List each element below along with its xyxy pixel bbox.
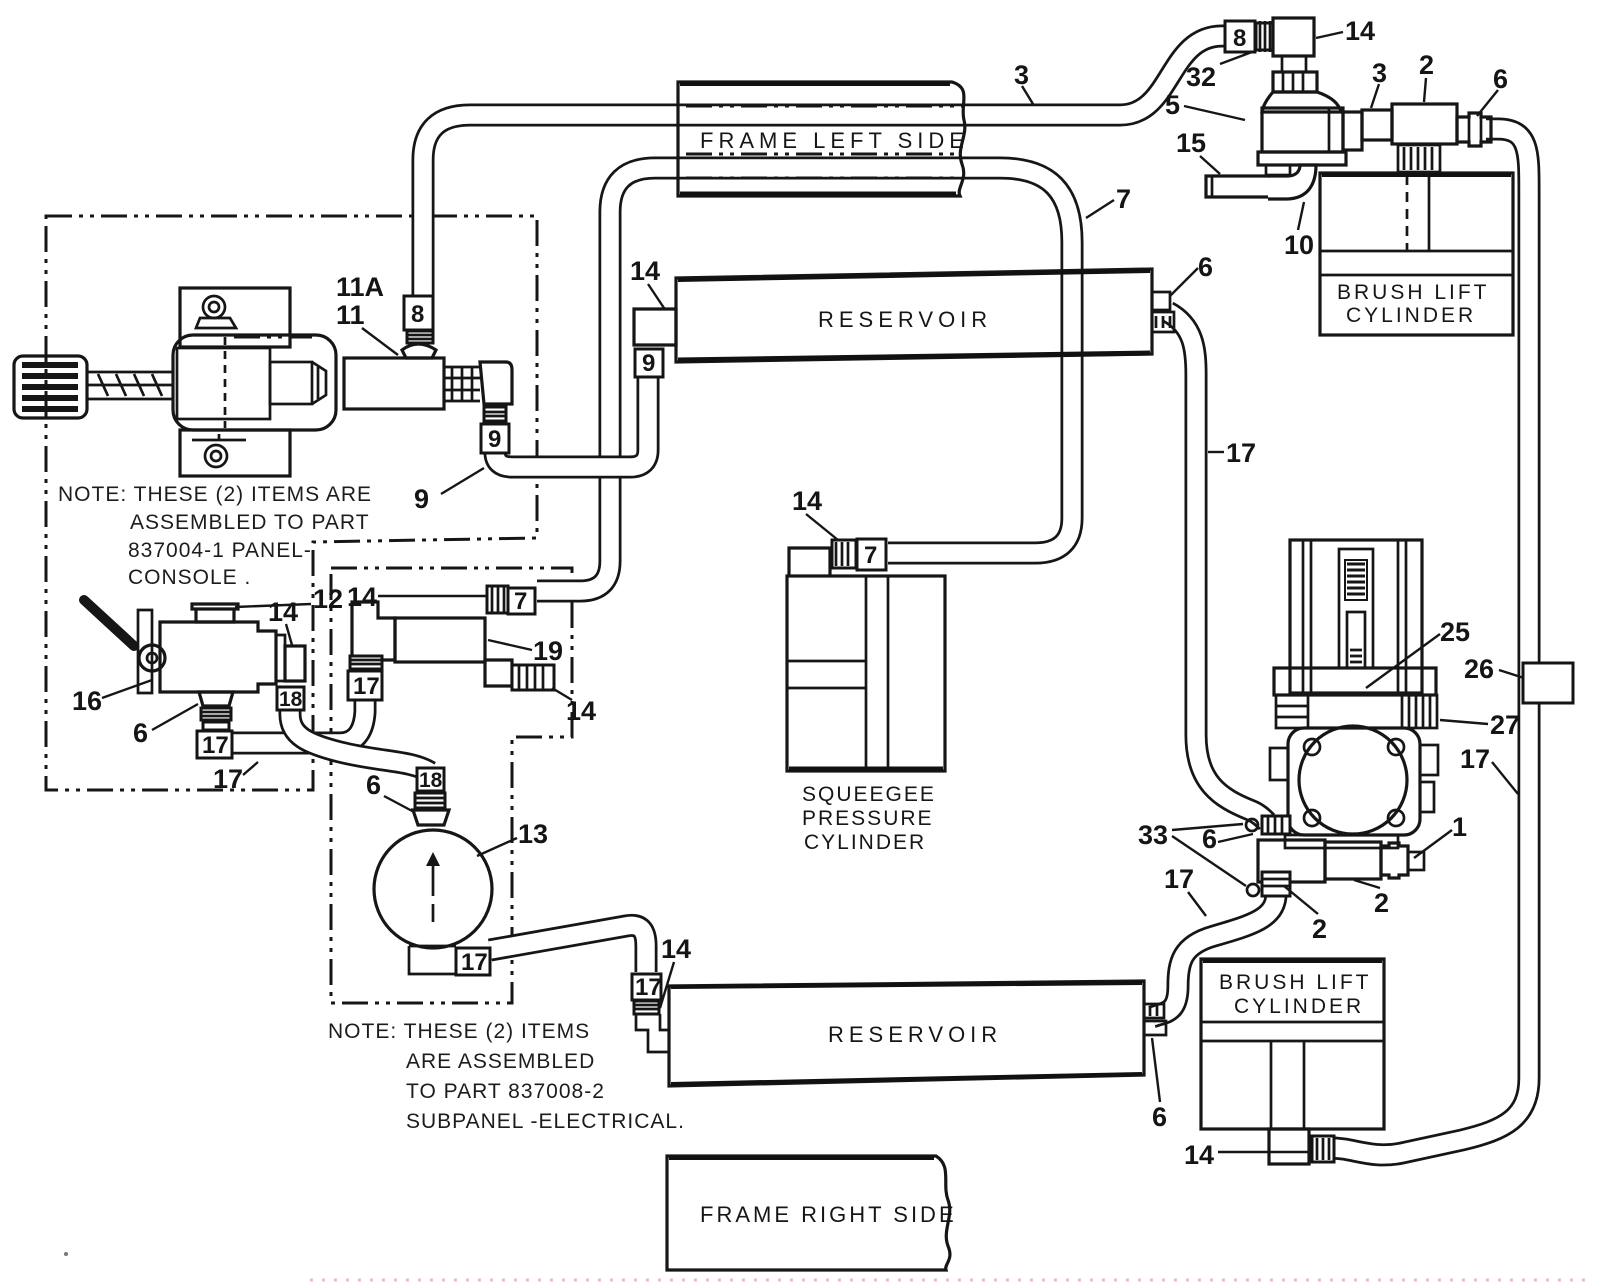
svg-text:6: 6	[1198, 252, 1213, 282]
leader 2	[1424, 78, 1426, 102]
hex fitting 6 top right	[1457, 113, 1491, 146]
leader 19	[488, 640, 532, 650]
fitting 17 box at lower reservoir left	[632, 974, 662, 1001]
hidden dashed line above valve body	[234, 336, 312, 339]
svg-text:14: 14	[347, 582, 377, 612]
left hex port on flange	[1276, 695, 1308, 728]
valve block 11	[344, 358, 444, 409]
svg-text:SQUEEGEE: SQUEEGEE	[802, 783, 936, 806]
threaded port into top cylinder	[1398, 145, 1440, 172]
leader 25	[1366, 634, 1440, 688]
svg-text:14: 14	[268, 597, 298, 627]
svg-text:12: 12	[313, 584, 343, 614]
svg-text:14: 14	[661, 934, 691, 964]
gauge 13	[374, 830, 492, 948]
hose 17 console (valve 12 fitting 17 to solenoid fitting 17)	[232, 700, 365, 743]
ferrule below elbow	[484, 407, 506, 421]
svg-text:14: 14	[1345, 16, 1375, 46]
fitting 8 box top right	[1225, 21, 1255, 52]
svg-text:17: 17	[461, 949, 488, 976]
knob with grip ridges	[14, 356, 87, 418]
leader 9	[441, 468, 484, 494]
svg-text:8: 8	[1233, 25, 1246, 52]
leader 10	[1298, 202, 1304, 230]
reservoir (top)	[676, 269, 1152, 362]
leader 17	[1208, 451, 1224, 453]
svg-text:ARE ASSEMBLED: ARE ASSEMBLED	[406, 1050, 595, 1073]
right port 27 hatched	[1402, 695, 1437, 728]
svg-text:RESERVOIR: RESERVOIR	[818, 307, 992, 332]
nipple 14 left of fitting 7	[487, 586, 508, 613]
motor 5 bell	[1262, 92, 1341, 112]
svg-text:837004-1 PANEL-: 837004-1 PANEL-	[128, 539, 312, 562]
cylinder 3 right of motor	[1343, 110, 1392, 150]
ferrule below solenoid elbow	[350, 656, 382, 669]
svg-text:7: 7	[514, 588, 527, 615]
leader 6	[384, 796, 414, 812]
elbow 10	[1268, 165, 1316, 199]
threaded nipple right of block 11	[444, 367, 480, 401]
svg-text:2: 2	[1312, 914, 1327, 944]
svg-text:3: 3	[1014, 60, 1029, 90]
pump lower base plate	[1285, 835, 1398, 848]
svg-text:7: 7	[1116, 184, 1131, 214]
fitting 7 box at squeegee	[857, 539, 886, 570]
leader 12	[235, 604, 311, 607]
reservoir (bottom)	[669, 981, 1144, 1086]
svg-text:17: 17	[1164, 864, 1194, 894]
threaded collar of motor 5	[1273, 72, 1317, 92]
solenoid valve 19 body	[395, 618, 485, 662]
svg-text:11A: 11A	[336, 272, 384, 302]
leader 1	[1414, 830, 1452, 858]
leaders 33	[1172, 824, 1246, 886]
fitting at lower reservoir right end	[1144, 1004, 1166, 1035]
leader 6	[152, 704, 198, 730]
svg-text:17: 17	[213, 764, 243, 794]
gauge bottom bracket	[409, 946, 456, 974]
bolt 32 hatching	[1256, 21, 1273, 52]
threaded nipple 14 right of solenoid	[512, 665, 554, 690]
svg-text:PRESSURE: PRESSURE	[802, 807, 934, 830]
svg-text:NOTE: THESE (2) ITEMS ARE: NOTE: THESE (2) ITEMS ARE	[58, 483, 372, 506]
lever handle 16	[84, 600, 165, 693]
leader 17	[1492, 762, 1518, 794]
leader 14 to nipple	[378, 595, 486, 597]
ferrule below fitting 8	[407, 331, 433, 343]
fitting 17 box below valve 12	[197, 731, 232, 759]
leader 14	[552, 688, 572, 700]
lower mounting plate	[180, 430, 290, 476]
svg-text:CONSOLE .: CONSOLE .	[128, 566, 251, 589]
squeegee pressure cylinder	[787, 548, 945, 854]
leader 16	[102, 680, 152, 698]
hose 7 (solenoid fitting 7 up over frame and down to squeegee fitting 7)	[537, 168, 1072, 591]
svg-text:RESERVOIR: RESERVOIR	[828, 1022, 1002, 1047]
fitting 8 box above valve block	[404, 296, 433, 330]
leader 14	[1218, 1151, 1308, 1153]
note text subpanel electrical	[328, 1020, 685, 1133]
svg-text:FRAME LEFT SIDE: FRAME LEFT SIDE	[700, 128, 969, 153]
svg-text:14: 14	[1184, 1140, 1214, 1170]
fitting 14 hatched bolt at cylinder foot	[1312, 1136, 1334, 1162]
piston foot bracket below cylinder	[1269, 1129, 1309, 1164]
valve 11A body outline	[173, 335, 336, 430]
svg-text:5: 5	[1165, 90, 1180, 120]
fitting 14 on valve 12 right	[285, 646, 305, 681]
leader 14	[806, 514, 838, 540]
svg-text:18: 18	[279, 688, 303, 711]
svg-text:2: 2	[1419, 50, 1434, 80]
leader 17	[1188, 892, 1206, 916]
svg-text:10: 10	[1284, 230, 1314, 260]
hose 2 (pump elbow down to lower reservoir right fitting)	[1152, 894, 1276, 1017]
svg-text:7: 7	[864, 542, 877, 569]
fitting 17 box below gauge	[456, 948, 490, 976]
dashed panel-console assembly box	[46, 216, 537, 790]
svg-text:17: 17	[353, 673, 380, 700]
hex ball below ferrule 8	[402, 344, 436, 358]
leader 13	[477, 838, 517, 856]
hose 17 right (reservoir fitting 6 down to pump inlet port)	[1168, 312, 1267, 822]
leader 14	[1316, 32, 1343, 38]
leader 14	[286, 624, 292, 645]
motor 5 body	[1262, 108, 1343, 152]
svg-text:17: 17	[202, 732, 229, 759]
knob shaft	[87, 372, 174, 399]
leader 3	[1022, 86, 1033, 104]
elbow fitting right of valve 11	[480, 362, 512, 404]
svg-text:16: 16	[72, 686, 102, 716]
upper inlet port with ball 33	[1246, 816, 1290, 834]
pipe 15	[1206, 176, 1270, 197]
leader 11	[362, 328, 398, 355]
svg-text:3: 3	[1372, 58, 1387, 88]
svg-text:BRUSH LIFT: BRUSH LIFT	[1219, 971, 1372, 994]
leader 14	[660, 962, 674, 1008]
ferrule below fitting 17	[634, 1001, 659, 1014]
svg-text:6: 6	[366, 770, 381, 800]
thick scanned edge accents	[680, 192, 956, 197]
ferrule below fitting 18	[415, 793, 445, 808]
svg-text:26: 26	[1464, 654, 1494, 684]
svg-text:8: 8	[411, 301, 424, 328]
leader 26	[1499, 670, 1524, 678]
hex fitting 6 above gauge	[413, 810, 449, 825]
block 2 top right	[1392, 104, 1457, 144]
svg-text:25: 25	[1440, 617, 1470, 647]
hose 9 (elbow 9 below valve 11 to reservoir fitting 9)	[495, 374, 648, 467]
lower elbow port 2 with ball 33	[1247, 872, 1290, 896]
valve block lower right 2	[1325, 842, 1381, 879]
svg-text:19: 19	[533, 636, 563, 666]
leader 27	[1440, 720, 1488, 724]
hex fitting 6 below valve 12	[199, 692, 233, 730]
scan artifact dot	[64, 1252, 68, 1256]
leader 15	[1200, 156, 1220, 174]
pump square housing with circle	[1270, 726, 1438, 835]
leader 6	[1152, 1038, 1160, 1102]
svg-text:14: 14	[792, 486, 822, 516]
step bracket into lower reservoir	[636, 1014, 669, 1052]
fitting 9 box below elbow	[481, 424, 509, 453]
block 26 on far right hose	[1523, 663, 1573, 703]
svg-text:17: 17	[635, 974, 662, 1001]
svg-text:6: 6	[1493, 64, 1508, 94]
svg-text:FRAME RIGHT SIDE: FRAME RIGHT SIDE	[700, 1202, 957, 1227]
hose 18 (valve 12 fitting 18 to gauge fitting 18)	[290, 706, 430, 772]
hose 17 bottom (gauge bracket to lower reservoir left fitting 17)	[490, 925, 646, 972]
brush lift cylinder (top right)	[1320, 173, 1513, 335]
svg-text:NOTE: THESE (2) ITEMS: NOTE: THESE (2) ITEMS	[328, 1020, 590, 1043]
solenoid right port stub	[485, 660, 512, 686]
valve 12 body	[160, 604, 285, 692]
svg-text:TO PART 837008-2: TO PART 837008-2	[406, 1080, 605, 1103]
svg-text:14: 14	[630, 256, 660, 286]
svg-text:9: 9	[414, 484, 429, 514]
pump motor 25 (vertical ribbed)	[1290, 540, 1422, 693]
fitting 6 at reservoir right end	[1152, 292, 1174, 332]
hose 17 far right (top fitting 6 down right edge to bottom fitting 14)	[1334, 129, 1529, 1155]
note text panel console	[58, 483, 372, 589]
svg-text:9: 9	[488, 426, 501, 453]
fitting 7 box at solenoid	[508, 588, 535, 615]
svg-text:6: 6	[1202, 824, 1217, 854]
svg-text:SUBPANEL -ELECTRICAL.: SUBPANEL -ELECTRICAL.	[406, 1110, 685, 1133]
svg-text:17: 17	[1460, 744, 1490, 774]
fitting 18 box above gauge	[417, 768, 444, 792]
svg-text:2: 2	[1374, 888, 1389, 918]
svg-text:6: 6	[133, 718, 148, 748]
svg-text:18: 18	[419, 769, 443, 792]
motor 5 base plate	[1258, 152, 1346, 165]
leader 6	[1170, 268, 1198, 296]
hose 3 (valve fitting 8 riser to top-right elbow 8)	[423, 36, 1232, 300]
valve block lower left	[1258, 840, 1325, 882]
svg-text:9: 9	[642, 350, 655, 377]
leader 6	[1218, 834, 1253, 842]
leader 6	[1477, 90, 1498, 116]
frame right side box	[667, 1156, 957, 1270]
svg-text:27: 27	[1490, 710, 1520, 740]
svg-text:17: 17	[1226, 438, 1256, 468]
svg-text:ASSEMBLED TO PART: ASSEMBLED TO PART	[130, 511, 370, 534]
leader 7	[1086, 200, 1114, 218]
fitting 9 box at reservoir left end	[635, 349, 663, 377]
svg-text:33: 33	[1138, 820, 1168, 850]
scan artifact dotted line bottom	[310, 1279, 1592, 1282]
svg-text:13: 13	[518, 819, 548, 849]
svg-text:CYLINDER: CYLINDER	[1346, 304, 1476, 327]
svg-text:CYLINDER: CYLINDER	[1234, 995, 1364, 1018]
leader 32	[1220, 52, 1252, 64]
solenoid valve 19 elbow fitting	[352, 602, 395, 660]
svg-text:CYLINDER: CYLINDER	[804, 831, 926, 854]
fitting 14 nipple at squeegee	[832, 540, 856, 568]
svg-text:1: 1	[1452, 812, 1467, 842]
leader 3	[1371, 84, 1379, 108]
leader 2	[1284, 886, 1318, 914]
neck below elbow	[1282, 56, 1306, 72]
elbow block 14 top right	[1273, 18, 1314, 56]
fitting 14 at reservoir left end	[634, 309, 676, 345]
frame left side box	[678, 82, 969, 196]
fitting 17 box below solenoid elbow	[348, 671, 382, 700]
svg-text:11: 11	[336, 300, 365, 330]
fitting 18 box below	[277, 687, 304, 711]
brush lift cylinder (bottom right)	[1201, 959, 1384, 1129]
leader 17	[243, 762, 258, 775]
svg-text:15: 15	[1176, 128, 1206, 158]
svg-text:6: 6	[1152, 1102, 1167, 1132]
svg-text:32: 32	[1186, 62, 1216, 92]
pump base flange	[1274, 668, 1436, 695]
leader 14	[648, 284, 664, 308]
svg-text:BRUSH LIFT: BRUSH LIFT	[1337, 281, 1490, 304]
hex fitting 1	[1381, 843, 1424, 878]
upper mounting plate	[180, 288, 290, 347]
leader 5	[1184, 106, 1245, 120]
dashed subpanel-electrical assembly box	[331, 568, 572, 1003]
leader 2	[1354, 880, 1380, 888]
tab below base plate	[1266, 165, 1290, 175]
